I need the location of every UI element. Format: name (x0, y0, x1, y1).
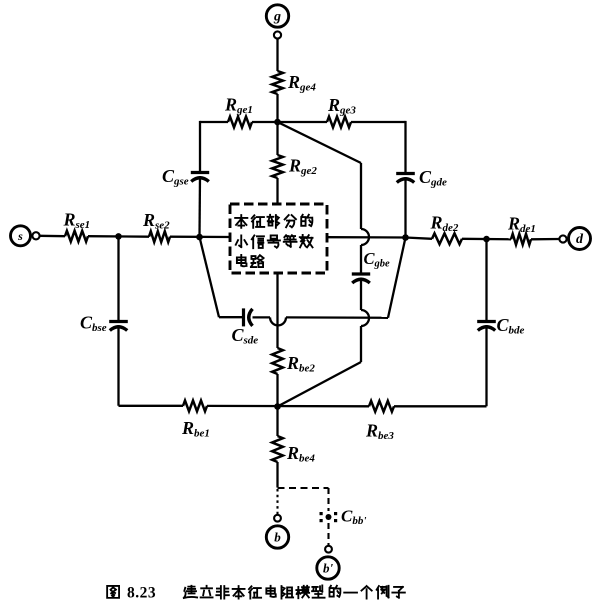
wire (286, 316, 388, 319)
resistor Rde1 (511, 234, 531, 245)
terminal small circle b' (325, 546, 332, 553)
capacitor Cgbe (352, 272, 370, 275)
resistor Rge1 (228, 117, 252, 128)
terminal g (266, 5, 288, 27)
intrinsic box (dashed) (230, 204, 327, 273)
wire (276, 122, 278, 155)
resistor Rbe3 (369, 401, 394, 412)
terminal small circle b (274, 515, 281, 522)
wire diagonal to Csde (200, 237, 220, 317)
svg-text:Rge3: Rge3 (327, 95, 356, 117)
wire (462, 238, 511, 241)
node gate junction (274, 119, 281, 126)
capacitor Cbse (109, 320, 128, 323)
svg-text:Cbse: Cbse (80, 313, 107, 335)
dotted wire to b (276, 489, 278, 515)
svg-text:Csde: Csde (232, 325, 259, 347)
svg-text:Rde2: Rde2 (430, 213, 459, 235)
wire (219, 316, 244, 318)
capacitor Cbde (477, 320, 496, 323)
dashed wire (327, 523, 329, 546)
wire (276, 178, 278, 204)
wire (360, 245, 362, 274)
node d junction 2 (483, 236, 490, 243)
wire (200, 121, 228, 123)
wire (276, 462, 278, 488)
svg-text:Rde1: Rde1 (507, 214, 536, 236)
svg-text:8.23: 8.23 (127, 585, 156, 602)
svg-text:Rse1: Rse1 (63, 210, 91, 232)
wire (276, 94, 278, 122)
resistor Rge3 (327, 117, 351, 128)
wire (406, 238, 433, 239)
svg-text:Cbb': Cbb' (341, 507, 366, 528)
svg-text:b: b (274, 530, 281, 545)
svg-text:Cgse: Cgse (162, 166, 189, 188)
wire (360, 278, 362, 311)
svg-text:Rbe3: Rbe3 (365, 421, 394, 443)
wire (360, 326, 362, 362)
capacitor Cgse (191, 171, 209, 174)
wire (485, 239, 487, 321)
terminal s (11, 226, 31, 246)
dashed wire to Cbb (278, 487, 329, 489)
terminal small circle g (274, 31, 281, 38)
resistor Rbe4 (272, 436, 283, 462)
wire (276, 374, 278, 407)
terminal small circle s (32, 232, 39, 239)
wire (207, 405, 369, 408)
wire (117, 325, 119, 406)
wire diagonal gate to Cgbe (278, 122, 362, 163)
dashed wire (327, 488, 329, 511)
wire hop over sde-row (361, 310, 369, 326)
resistor Rge2 (272, 155, 283, 178)
wire (276, 39, 278, 71)
resistor Rge4 (272, 71, 283, 94)
capacitor Cbb' (dotted) (320, 512, 338, 522)
wire (199, 121, 201, 172)
wire (276, 407, 278, 437)
resistor Rbe2 (272, 348, 283, 374)
capacitor Cgde (396, 172, 415, 175)
box text line 1: 本征部分的 (235, 215, 247, 228)
wire (394, 405, 487, 407)
svg-text:Rge4: Rge4 (287, 72, 316, 94)
wire (360, 163, 362, 229)
wire (276, 273, 278, 348)
svg-text:Rge1: Rge1 (224, 95, 253, 117)
svg-text:Rge2: Rge2 (288, 156, 317, 178)
wire diagonal Csde row to d junction (388, 238, 406, 318)
wire (404, 121, 406, 173)
box text line 3: 电路 (237, 255, 247, 266)
wire (351, 121, 406, 123)
svg-text:Rse2: Rse2 (142, 210, 170, 232)
wire (119, 405, 184, 407)
svg-text:b': b' (323, 561, 334, 576)
wire (170, 236, 230, 239)
wire hop under Rbe2 line (270, 317, 286, 325)
svg-text:Rbe1: Rbe1 (181, 418, 210, 440)
svg-text:Cbde: Cbde (497, 315, 525, 337)
wire (531, 238, 559, 241)
svg-text:s: s (17, 229, 23, 243)
wire (404, 177, 406, 238)
wire diagonal Cgbe to b-node (278, 362, 362, 407)
svg-text:g: g (273, 10, 281, 25)
resistor Rbe1 (183, 401, 207, 412)
terminal b' (317, 557, 339, 579)
svg-text:Cgbe: Cgbe (364, 249, 391, 270)
capacitor Csde (242, 308, 245, 326)
wire (253, 316, 271, 318)
node d junction 1 (402, 234, 409, 241)
wire (485, 325, 487, 406)
resistor Rde2 (432, 233, 462, 244)
svg-text:Rbe4: Rbe4 (286, 443, 315, 465)
svg-text:d: d (576, 232, 584, 247)
terminal small circle d (559, 235, 566, 242)
node s junction 1 (115, 233, 122, 240)
wire (198, 176, 201, 237)
node s junction 2 (196, 234, 203, 241)
svg-text:Cgde: Cgde (419, 167, 447, 189)
wire (117, 236, 119, 321)
caption 图 (107, 586, 119, 598)
wire (252, 121, 327, 123)
wire (327, 236, 406, 239)
terminal b (266, 526, 288, 548)
wire hop over s-row (361, 229, 369, 245)
terminal d (569, 228, 591, 250)
wire (40, 235, 65, 238)
node b junction (274, 403, 281, 410)
svg-text:Rbe2: Rbe2 (286, 353, 315, 375)
caption text 建立非本征电阻模型的一个例子 (184, 586, 197, 598)
resistor Rse2 (149, 231, 170, 242)
resistor Rse1 (65, 231, 88, 242)
wire (88, 235, 149, 238)
box text line 2: 小信号等效 (236, 235, 247, 247)
